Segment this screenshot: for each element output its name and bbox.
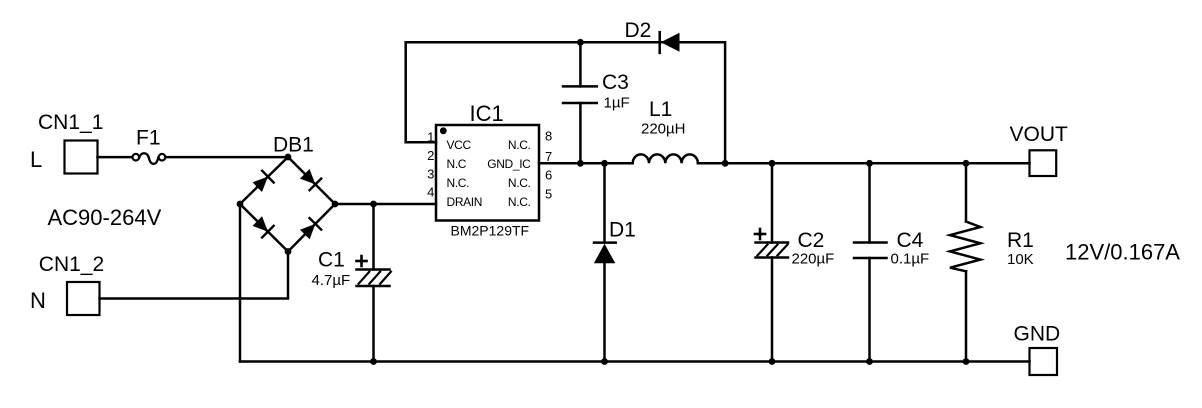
svg-text:AC90-264V: AC90-264V [48, 205, 162, 230]
svg-text:8: 8 [545, 129, 552, 144]
bridge diode top-left [251, 171, 273, 193]
node bridge right [332, 201, 339, 208]
svg-text:C4: C4 [897, 229, 924, 252]
node C4 top junction [866, 160, 873, 167]
svg-text:0.1µF: 0.1µF [891, 251, 930, 268]
bridge edge wires [240, 157, 335, 252]
bridge diode top-right [299, 168, 321, 190]
wire IC pin7 GND_IC to output node [539, 162, 633, 165]
svg-text:VCC: VCC [447, 138, 472, 152]
svg-text:1µF: 1µF [604, 95, 630, 112]
svg-text:N.C: N.C [447, 157, 467, 171]
C1 plus sign [357, 256, 367, 266]
svg-text:220µH: 220µH [641, 121, 686, 138]
svg-text:C3: C3 [602, 71, 629, 94]
svg-text:2: 2 [427, 148, 434, 163]
svg-text:4.7µF: 4.7µF [312, 272, 351, 289]
svg-text:DB1: DB1 [273, 134, 314, 157]
svg-text:7: 7 [545, 149, 552, 164]
diode D2 [660, 32, 680, 53]
capacitor C2 (electrolytic) [756, 163, 789, 361]
svg-text:DRAIN: DRAIN [447, 195, 483, 209]
svg-text:4: 4 [427, 185, 434, 200]
node D1 bottom junction [601, 358, 608, 365]
wire ground rail [240, 360, 1030, 363]
svg-text:D2: D2 [625, 19, 652, 42]
capacitor C4 [854, 163, 887, 361]
wire IC pin1 VCC up and over top rail [406, 42, 725, 163]
wire F1 to bridge top [166, 156, 289, 159]
svg-text:C1: C1 [318, 249, 345, 272]
svg-text:CN1_2: CN1_2 [39, 253, 104, 276]
fuse F1 [133, 153, 166, 164]
svg-text:BM2P129TF: BM2P129TF [451, 222, 530, 238]
node C2 top junction [769, 160, 776, 167]
wire N terminal to bridge bottom [100, 252, 289, 299]
svg-text:6: 6 [545, 167, 552, 182]
node C2 bottom junction [769, 358, 776, 365]
diode D1 (freewheel) [594, 163, 616, 361]
inductor L1 [633, 154, 698, 163]
terminal CN1_1 (L input) [65, 141, 98, 174]
capacitor C3 [563, 42, 597, 163]
wire L terminal to F1 [98, 156, 132, 159]
svg-text:IC1: IC1 [470, 101, 504, 126]
svg-text:12V/0.167A: 12V/0.167A [1065, 240, 1180, 265]
svg-text:GND: GND [1014, 323, 1061, 346]
node R1 top junction [963, 160, 970, 167]
C2 plus sign [755, 229, 765, 239]
bridge diode bottom-right [299, 218, 321, 240]
terminal GND [1030, 348, 1058, 375]
svg-text:D1: D1 [609, 219, 636, 242]
svg-text:N.C.: N.C. [447, 176, 470, 190]
svg-text:N.C.: N.C. [508, 195, 531, 209]
node D1 top junction [601, 160, 608, 167]
svg-text:L1: L1 [649, 98, 672, 121]
node C3 top junction [577, 39, 584, 46]
svg-text:L: L [30, 147, 42, 172]
resistor R1 [950, 163, 980, 361]
svg-text:VOUT: VOUT [1010, 123, 1069, 146]
bridge diode bottom-left [251, 215, 273, 237]
terminal VOUT [1030, 150, 1057, 176]
IC U1 BM2P129TF body [436, 125, 539, 221]
node C1 bottom junction [370, 358, 377, 365]
svg-text:220µF: 220µF [792, 251, 835, 268]
wire bridge right to IC pin4 DRAIN [335, 203, 436, 206]
svg-text:N.C.: N.C. [508, 176, 531, 190]
wire L1 to VOUT [698, 162, 1030, 165]
svg-text:GND_IC: GND_IC [487, 157, 531, 171]
node D2 cathode junction [722, 160, 729, 167]
node bridge bottom [285, 248, 292, 255]
svg-text:C2: C2 [798, 229, 825, 252]
terminal CN1_2 (N input) [67, 282, 100, 315]
node bridge left [237, 201, 244, 208]
bridge rectifier DB1 [240, 157, 335, 252]
wire bridge left vertex down to ground rail [239, 204, 242, 362]
svg-text:3: 3 [427, 166, 434, 181]
node bridge top [285, 154, 292, 161]
node R1 bottom junction [963, 358, 970, 365]
svg-text:N: N [30, 288, 46, 313]
node C3 bottom junction [577, 160, 584, 167]
svg-text:R1: R1 [1007, 229, 1034, 252]
node C1 top junction [370, 201, 377, 208]
svg-text:CN1_1: CN1_1 [38, 111, 103, 134]
svg-text:F1: F1 [136, 127, 161, 150]
svg-text:5: 5 [545, 187, 552, 202]
capacitor C1 (electrolytic) [357, 204, 391, 362]
svg-text:10K: 10K [1007, 251, 1034, 268]
svg-text:N.C.: N.C. [508, 138, 531, 152]
node C4 bottom junction [866, 358, 873, 365]
